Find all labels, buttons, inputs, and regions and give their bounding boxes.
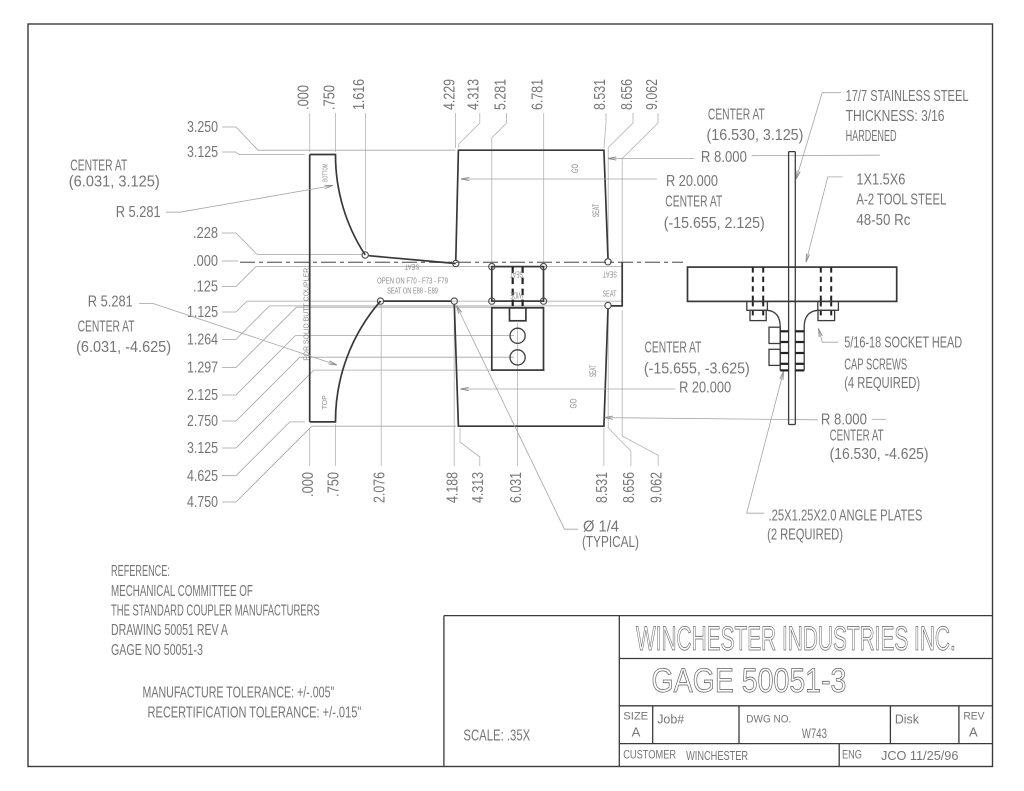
ldr R8 dash right (752, 154, 880, 157)
svg-text:17/7 STAINLESS STEEL: 17/7 STAINLESS STEEL (846, 87, 969, 104)
svg-text:MANUFACTURE TOLERANCE: +/-.005: MANUFACTURE TOLERANCE: +/-.005" (143, 683, 335, 701)
svg-text:.228: .228 (193, 225, 218, 243)
seat slope line (369, 256, 456, 264)
svg-text:CENTER AT: CENTER AT (708, 105, 765, 123)
ext 8.531 top (604, 113, 606, 148)
svg-text:DRAWING 50051 REV A: DRAWING 50051 REV A (111, 621, 229, 639)
ldr 4.750 left (222, 426, 456, 502)
svg-text:4.313: 4.313 (465, 79, 483, 110)
washer left (747, 301, 768, 310)
svg-text:SEAT: SEAT (603, 269, 617, 278)
svg-text:SEAT: SEAT (510, 269, 523, 277)
corner circle 4.229 (453, 260, 459, 266)
svg-text:(-15.655, 2.125): (-15.655, 2.125) (664, 214, 765, 232)
ldr 1.125 left (222, 301, 622, 312)
ldr 2.125 left (222, 336, 514, 395)
svg-text:.125: .125 (193, 278, 218, 296)
svg-text:2.750: 2.750 (187, 413, 218, 431)
svg-text:(TYPICAL): (TYPICAL) (582, 532, 639, 550)
center block tab (510, 308, 526, 321)
svg-text:1X1.5X6: 1X1.5X6 (856, 171, 905, 189)
top-left knuckle piece (310, 155, 366, 256)
svg-text:WINCHESTER: WINCHESTER (686, 750, 748, 764)
svg-text:THE STANDARD COUPLER MANUFACTU: THE STANDARD COUPLER MANUFACTURERS (111, 601, 320, 619)
angle plate left leg (779, 327, 781, 371)
bar screw hole dashed lines (752, 267, 754, 301)
svg-text:1.264: 1.264 (187, 331, 218, 349)
ext .750 top (335, 113, 337, 152)
gage plate (789, 152, 796, 425)
svg-text:REFERENCE:: REFERENCE: (111, 561, 170, 579)
ext 8.656 top (608, 113, 633, 258)
svg-text:GAGE 50051-3: GAGE 50051-3 (652, 662, 847, 700)
right seat strip (612, 262, 623, 306)
ldr 3.125 left (222, 152, 305, 155)
tool steel bar (688, 267, 897, 301)
svg-text:5.281: 5.281 (492, 79, 510, 110)
ext 4.188 bottom (453, 306, 455, 466)
corner circle cb3 (489, 298, 495, 304)
leader 1X1.5X6 (806, 177, 843, 262)
svg-text:GAGE NO 50051-3: GAGE NO 50051-3 (111, 641, 203, 659)
knuckle circle top (362, 252, 368, 258)
ext 8.531 bottom (603, 428, 605, 466)
svg-text:WINCHESTER INDUSTRIES INC.: WINCHESTER INDUSTRIES INC. (636, 619, 956, 658)
svg-text:HARDENED: HARDENED (846, 126, 897, 144)
ext 1.616 top (364, 113, 366, 250)
ldr 3.125 left (222, 370, 545, 448)
ldr 1.264 left (222, 306, 605, 340)
hidden hole dashed lines (512, 267, 514, 310)
ext 4.229 top (455, 113, 457, 148)
ldr R8b dash (872, 418, 886, 420)
svg-text:OPEN ON F70 - F73 - F79: OPEN ON F70 - F73 - F79 (377, 278, 448, 286)
svg-text:.000: .000 (300, 472, 318, 497)
leader R8 bottom (605, 418, 819, 420)
corner circle 4.188 (451, 298, 457, 304)
left face vertical (309, 155, 311, 422)
svg-text:CENTER AT: CENTER AT (830, 426, 884, 444)
leader angle plates (747, 372, 784, 514)
top GO block (456, 150, 608, 260)
svg-text:RECERTIFICATION TOLERANCE: +/-: RECERTIFICATION TOLERANCE: +/-.015" (148, 704, 362, 721)
centerline (240, 261, 683, 263)
svg-text:THICKNESS: 3/16: THICKNESS: 3/16 (846, 107, 945, 125)
svg-text:R 20.000: R 20.000 (666, 173, 718, 191)
corner circle cb1 (489, 263, 495, 269)
hole circle 1 (510, 328, 525, 343)
svg-text:(16.530, 3.125): (16.530, 3.125) (707, 126, 804, 144)
svg-text:Disk: Disk (895, 712, 920, 726)
svg-text:SEAT ON E88 - E89: SEAT ON E88 - E89 (387, 288, 438, 296)
ext 6.031 bottom (517, 323, 519, 466)
svg-text:R 5.281: R 5.281 (88, 293, 133, 311)
svg-text:CUSTOMER: CUSTOMER (623, 749, 676, 762)
ldr .228 left (222, 233, 362, 254)
title block lines (444, 616, 992, 767)
svg-text:R 8.000: R 8.000 (701, 149, 747, 166)
svg-text:.000: .000 (193, 253, 218, 271)
svg-text:.750: .750 (325, 472, 343, 497)
leader R8 top (608, 158, 664, 160)
svg-text:5/16-18 SOCKET HEAD: 5/16-18 SOCKET HEAD (844, 333, 962, 351)
screw head left (750, 310, 766, 320)
svg-text:SEAT: SEAT (404, 262, 419, 270)
svg-text:GO: GO (568, 398, 579, 408)
svg-text:GO: GO (570, 164, 581, 173)
svg-text:CENTER AT: CENTER AT (665, 192, 722, 210)
svg-text:2.125: 2.125 (187, 387, 218, 405)
svg-text:4.229: 4.229 (441, 79, 459, 110)
hole circle 2 (510, 350, 525, 365)
ext 2.076 bottom (380, 305, 382, 466)
ext 6.781 top (543, 113, 545, 263)
ldr 4.625 left (222, 422, 305, 476)
svg-text:TOP: TOP (320, 395, 329, 409)
svg-text:SIZE: SIZE (623, 711, 648, 723)
svg-text:REV: REV (963, 710, 985, 722)
svg-text:1.297: 1.297 (187, 359, 218, 377)
ldr 1.297 left (222, 307, 544, 367)
svg-text:A-2 TOOL STEEL: A-2 TOOL STEEL (856, 190, 946, 208)
svg-text:48-50 Rc: 48-50 Rc (856, 212, 910, 229)
leader R5.281 top (166, 186, 333, 213)
knuckle circle bottom (377, 298, 383, 304)
svg-text:CENTER AT: CENTER AT (70, 156, 127, 174)
leader 5/16-18 (819, 329, 839, 343)
svg-text:R 5.281: R 5.281 (116, 204, 161, 222)
ext .750 bottom (335, 424, 337, 466)
svg-text:SCALE: .35X: SCALE: .35X (463, 725, 530, 743)
svg-text:WIDE: WIDE (510, 290, 523, 298)
seat flat bottom (384, 300, 451, 302)
nut stack dividers (780, 331, 804, 370)
fillet left (767, 310, 780, 327)
ldr .000 left (222, 260, 238, 262)
center block lower rect (492, 308, 544, 370)
svg-text:8.656: 8.656 (621, 472, 639, 503)
svg-text:9.062: 9.062 (648, 472, 666, 503)
bottom-left knuckle piece (310, 301, 381, 422)
svg-text:.25X1.25X2.0 ANGLE PLATES: .25X1.25X2.0 ANGLE PLATES (769, 505, 923, 524)
svg-text:W743: W743 (802, 725, 827, 741)
svg-text:(4 REQUIRED): (4 REQUIRED) (844, 373, 920, 392)
ext 5.281 top (492, 113, 507, 263)
svg-text:4.625: 4.625 (187, 467, 218, 485)
svg-text:(16.530, -4.625): (16.530, -4.625) (830, 445, 929, 463)
ext 8.656 bottom (608, 310, 631, 466)
svg-text:CENTER AT: CENTER AT (78, 317, 135, 335)
leader R5.281 bottom (139, 303, 337, 365)
svg-text:DWG NO.: DWG NO. (746, 713, 791, 726)
svg-text:3.125: 3.125 (187, 440, 218, 458)
ext 4.313 top (459, 113, 480, 148)
ext 4.313 bottom (460, 428, 480, 466)
svg-text:3.250: 3.250 (187, 119, 218, 137)
svg-text:SEAT: SEAT (587, 365, 598, 377)
svg-text:9.062: 9.062 (643, 79, 661, 110)
socket head squares (769, 327, 780, 343)
svg-text:R 20.000: R 20.000 (679, 379, 731, 397)
leader dia 1/4 (457, 306, 579, 530)
ldr 2.750 left (222, 357, 514, 421)
svg-text:6.781: 6.781 (529, 79, 547, 110)
corner circle strip (605, 302, 611, 308)
ext .000 top (309, 113, 311, 152)
ext 9.062 top (622, 113, 658, 262)
fillet right (804, 310, 818, 327)
svg-text:3.125: 3.125 (187, 144, 218, 162)
svg-text:4.313: 4.313 (470, 472, 488, 503)
svg-text:4.750: 4.750 (187, 494, 218, 512)
svg-text:JCO 11/25/96: JCO 11/25/96 (881, 748, 958, 763)
bottom GO block (454, 305, 608, 427)
center block upper rect (492, 267, 544, 302)
leader R20 bottom (461, 388, 676, 390)
svg-text:2.076: 2.076 (371, 472, 389, 503)
leader 17/7 (796, 93, 841, 179)
ldr .125 left (222, 267, 622, 287)
leader R20 top (461, 178, 657, 180)
svg-text:ENG: ENG (842, 749, 862, 762)
angle plate right leg (803, 327, 805, 371)
ext .000 bottom (309, 428, 311, 466)
svg-text:BOTTOM: BOTTOM (323, 164, 330, 182)
svg-text:1.125: 1.125 (187, 304, 218, 322)
svg-text:A: A (969, 724, 978, 739)
svg-text:(2 REQUIRED): (2 REQUIRED) (767, 524, 843, 543)
washer right (818, 301, 839, 310)
svg-text:6.031: 6.031 (507, 472, 525, 503)
screw head right (818, 310, 835, 320)
svg-text:.750: .750 (321, 85, 339, 110)
svg-text:1.616: 1.616 (351, 79, 369, 110)
svg-text:(-15.655, -3.625): (-15.655, -3.625) (644, 360, 750, 378)
svg-text:Job#: Job# (657, 711, 685, 726)
ldr 3.250 left (222, 127, 456, 150)
svg-text:A: A (632, 724, 641, 739)
corner circle cb4 (540, 298, 546, 304)
svg-text:8.531: 8.531 (594, 472, 612, 503)
svg-text:8.531: 8.531 (591, 79, 609, 110)
ext 9.062 bottom (622, 310, 658, 466)
svg-text:FOR SOLID BUTT COUPLER: FOR SOLID BUTT COUPLER (301, 268, 310, 361)
corner circle block right (605, 259, 611, 265)
svg-text:.000: .000 (295, 85, 313, 110)
svg-text:SEAT: SEAT (603, 289, 617, 298)
svg-text:SEAT: SEAT (590, 204, 601, 218)
svg-text:8.656: 8.656 (618, 79, 636, 110)
svg-text:MECHANICAL COMMITTEE OF: MECHANICAL COMMITTEE OF (111, 582, 253, 600)
ldr R8 dash left (664, 158, 694, 160)
svg-text:CENTER AT: CENTER AT (645, 338, 702, 356)
svg-text:CAP SCREWS: CAP SCREWS (844, 355, 907, 373)
svg-text:(6.031, -4.625): (6.031, -4.625) (76, 338, 171, 356)
corner circle cb2 (540, 263, 546, 269)
svg-text:(6.031, 3.125): (6.031, 3.125) (69, 173, 160, 191)
svg-text:4.188: 4.188 (444, 472, 462, 503)
